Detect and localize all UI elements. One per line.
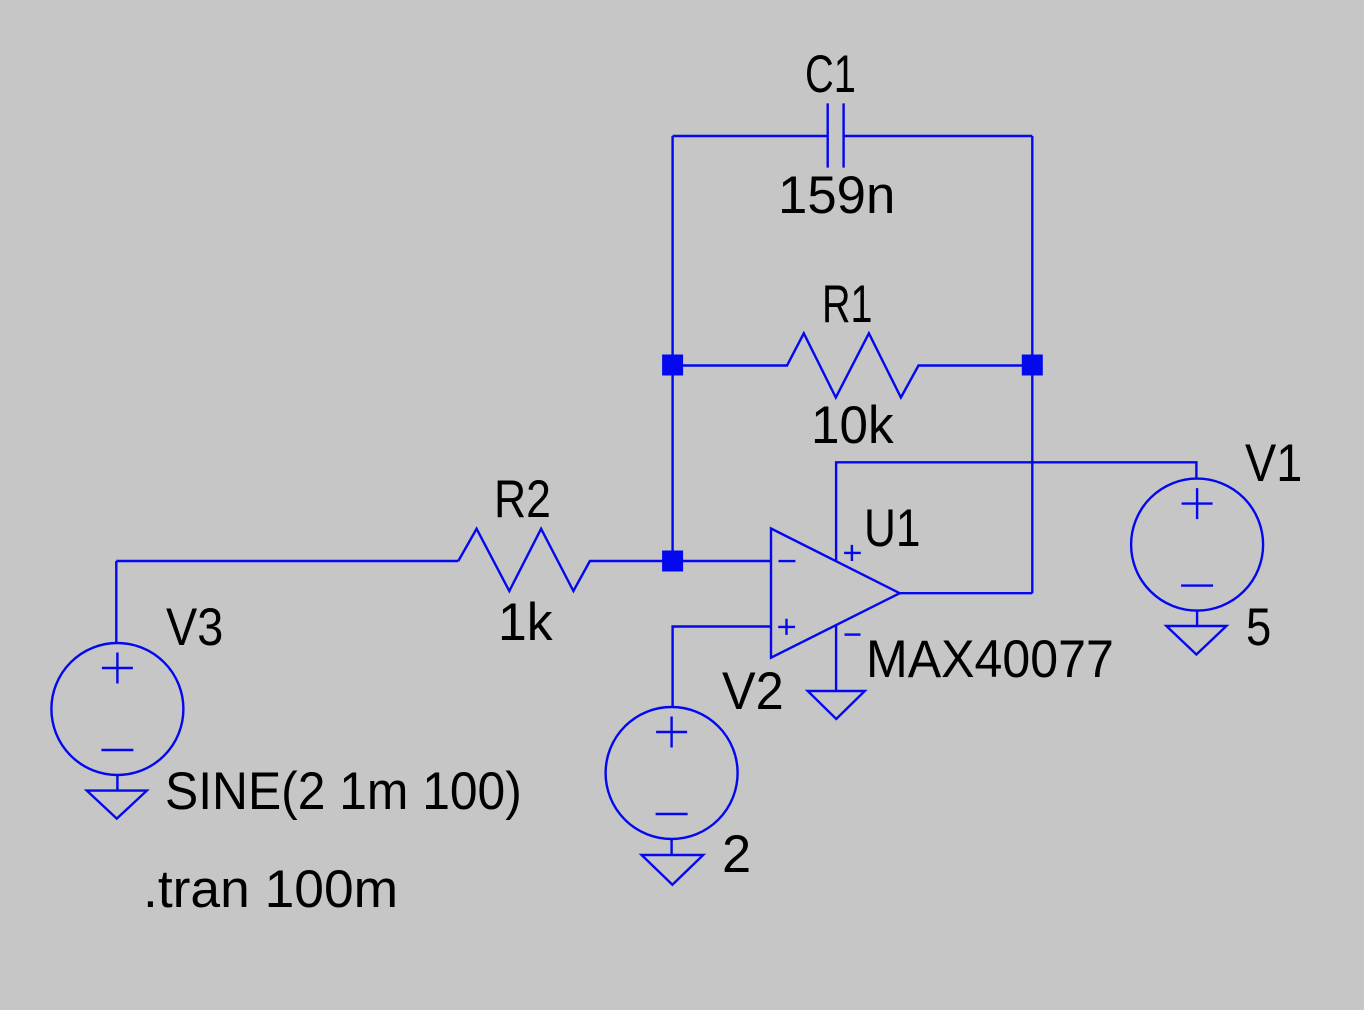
ground V1 [1166,626,1226,655]
wire V3 to ground [116,775,118,791]
voltage source V1 minus [1181,584,1213,586]
value 159n [778,169,895,222]
voltage source V1 circle [1131,479,1263,611]
voltage source V2 minus [656,813,688,815]
op-amp inverting input mark [779,560,796,562]
label V1 [1245,437,1302,490]
ground V3 [87,791,147,819]
op-amp V- pin mark [845,633,861,635]
ground op-amp V- [808,691,865,719]
op-amp U1 triangle [771,529,900,658]
label U1 [864,502,921,555]
label C1 [805,48,856,101]
wire left vertical [671,136,673,561]
resistor R2 [458,529,672,591]
wire V2 to ground [670,839,672,855]
value 1k [498,596,553,649]
voltage source V2 plus [656,717,687,748]
label R1 [822,278,872,331]
label V2 [722,665,784,718]
voltage source V2 circle [606,707,738,839]
op-amp V+ pin mark [844,545,861,561]
voltage source V3 circle [51,643,183,775]
wire V3 top stub [115,561,117,643]
directive .tran [143,863,398,916]
wire op-amp V+ to V1 [836,462,1196,561]
label V3 [166,601,223,654]
wire V1 to ground [1196,611,1198,626]
value 10k [811,399,894,452]
wire op-amp output [900,592,1033,594]
node junction R1 left [662,355,683,376]
capacitor C1 [828,103,844,167]
wire V3 to R2 [116,560,458,562]
resistor R1 [673,333,1033,397]
voltage source V1 plus [1182,488,1213,519]
node junction inverting input [662,551,683,572]
value 2 [722,828,751,881]
wire op-amp V- down [835,625,837,691]
voltage source V3 plus [102,653,133,684]
value SINE [165,765,522,818]
wire non-inverting input to V2 [673,627,771,707]
op-amp non-inverting input mark [778,619,795,635]
node junction R1 right [1022,355,1043,376]
wire feedback top right [844,135,1033,137]
label R2 [494,473,551,526]
voltage source V3 minus [101,749,133,751]
wire right vertical [1031,136,1033,593]
wire R2 junction to op-amp [673,560,771,562]
wire feedback top left [673,135,828,137]
value 5 [1246,601,1271,654]
value MAX40077 [866,633,1114,686]
ground V2 [642,855,704,885]
